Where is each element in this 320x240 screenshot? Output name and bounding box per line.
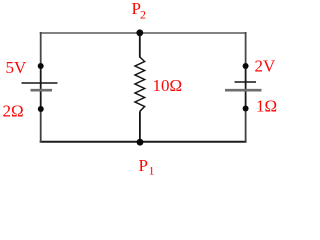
svg-text:2V: 2V xyxy=(255,57,277,76)
svg-text:5V: 5V xyxy=(6,58,28,77)
svg-text:10Ω: 10Ω xyxy=(153,76,183,95)
svg-text:2: 2 xyxy=(140,8,146,22)
svg-text:P: P xyxy=(139,156,148,175)
svg-text:1Ω: 1Ω xyxy=(256,97,277,116)
svg-text:1: 1 xyxy=(149,164,155,178)
svg-text:2Ω: 2Ω xyxy=(3,102,24,121)
